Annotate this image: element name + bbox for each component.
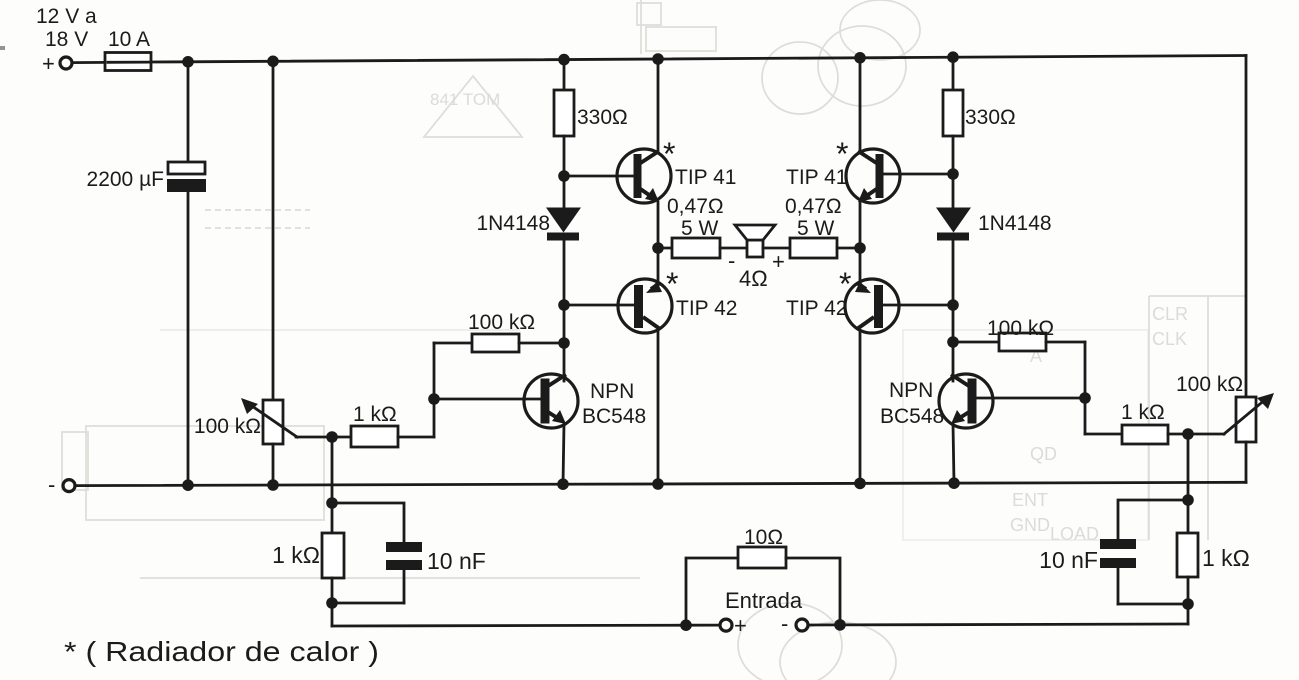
wire bottom input line left [332,624,686,628]
svg-text:5 W: 5 W [797,217,835,240]
svg-text:1 kΩ: 1 kΩ [1202,545,1250,571]
svg-text:-: - [781,611,788,636]
wire Q1 base [564,175,634,178]
wire input - to node E2 [808,624,840,627]
node O2 (right output) [854,242,866,254]
terminal input + [720,619,732,631]
svg-text:LOAD: LOAD [1050,524,1099,544]
wire ground bus [75,482,1246,485]
transistor Q6 NPN BC548 right [939,374,993,428]
svg-text:1 kΩ: 1 kΩ [353,403,397,426]
node top bus / Q3 collector [854,52,866,64]
wire R1n to C3 top [1118,500,1188,539]
capacitor C2 10 nF left [386,542,422,552]
wire A2 down [563,305,566,343]
wire Q4 collector to ground [859,331,862,483]
svg-text:330Ω: 330Ω [965,106,1016,129]
node L2 [326,597,338,609]
svg-text:NPN: NPN [590,380,634,403]
svg-text:TIP 42: TIP 42 [786,297,847,320]
svg-text:841 TOM: 841 TOM [430,90,500,109]
node W2 [1182,428,1194,440]
svg-text:*: * [663,136,675,172]
loudspeaker LS1 4 ohm [747,240,763,257]
potentiometer P2 100k body [1236,397,1256,442]
resistor R8 100k feedback right [953,341,999,344]
resistor R3 0,47 ohm left [658,247,672,250]
node bias A5 (Q4 base) [947,299,959,311]
wire node B1 up to R7 [433,343,436,399]
wire Q5 emitter to ground [563,424,564,484]
node A6 (R8 / Q6 collector) [947,336,959,348]
node B1 (Q5 base) [428,393,440,405]
wire O1 to Q2 emitter [657,248,660,283]
resistor R7 100k feedback left [434,342,472,345]
wire L1 to C2 top [332,503,404,542]
svg-text:+: + [42,51,55,76]
svg-text:10Ω: 10Ω [744,526,783,549]
svg-text:BC548: BC548 [582,405,646,428]
transistor Q4 TIP 42 right [845,279,899,333]
resistor R5 1k horizontal left [332,436,351,439]
node E1 [680,619,692,631]
wire Q1 collector to top bus [657,59,660,152]
svg-text:+: + [734,613,747,638]
resistor R6 1k horizontal right [1084,398,1087,434]
node R1n [1182,494,1194,506]
svg-text:100 kΩ: 100 kΩ [468,311,535,334]
wire Q4 base [880,304,953,307]
resistor R4 0,47 ohm right [763,247,790,250]
wire A5 down [952,305,955,342]
wire C2 bottom to L2 [332,602,404,605]
wire C1 top [187,62,190,162]
wire L2 down to input line [331,603,334,626]
resistor R9 1k vertical left [331,503,334,533]
svg-text:TIP 42: TIP 42 [676,297,737,320]
potentiometer P1 wiper arrow [249,404,297,437]
svg-text:TIP 41: TIP 41 [675,166,736,189]
wire Q3 emitter to node O2 [859,202,862,248]
wire top +V bus [188,56,1246,62]
transistor Q1 TIP 41 left [617,149,671,203]
terminal - (supply negative) [63,480,75,492]
node top bus / R1 330 [558,54,570,66]
diode D2 1N4148 [936,208,971,233]
svg-text:GND: GND [1010,515,1050,535]
terminal input - [796,619,808,631]
node gnd / Q5 emitter [557,478,569,490]
node bias A2 (Q2 base) [558,299,570,311]
wire P2 bottom lead [1245,442,1248,482]
diode D1 1N4148 [546,208,581,233]
wire W1 down across ground bus [331,437,334,503]
wire R2n down to input line [1187,604,1190,624]
wire Q6 base [974,397,1085,400]
svg-text:18 V: 18 V [45,28,88,51]
svg-text:-: - [728,248,735,273]
potentiometer P1 100k body [263,400,283,444]
svg-text:1N4148: 1N4148 [476,212,550,235]
wire A1 to diode D1 [563,176,566,210]
wire P1 wiper to node W1 [296,436,332,439]
node bias A4 (Q3 base) [947,168,959,180]
svg-text:Entrada: Entrada [725,588,803,613]
node L1 [326,497,338,509]
svg-text:5 W: 5 W [681,217,719,240]
wire right edge down to potentiometer P2 [1245,56,1248,398]
wire E1 to input + terminal [686,624,720,627]
capacitor C1 2200uF electrolytic [168,162,205,174]
wire Q1 emitter to output node O1 [657,202,660,248]
potentiometer P2 wiper arrow [1224,399,1266,434]
terminal + (supply positive) [60,57,72,69]
wire C1 bottom to ground bus [187,192,190,485]
svg-text:0,47Ω: 0,47Ω [785,195,842,218]
svg-text:1 kΩ: 1 kΩ [1121,401,1165,424]
node top bus / P1 [267,56,279,68]
svg-text:0,47Ω: 0,47Ω [667,195,724,218]
node B2 (Q6 base) [1079,392,1091,404]
node E2 [834,619,846,631]
svg-text:100 kΩ: 100 kΩ [194,415,261,438]
node W1 [326,431,338,443]
wire Q2 collector to ground [657,331,660,484]
node top bus / R2 330 [947,51,959,63]
node top bus / C1 [182,56,194,68]
svg-text:QD: QD [1030,444,1057,464]
wire bottom input line right [840,623,1188,627]
node A3 (R7 / Q5 collector) [558,337,570,349]
svg-text:10 nF: 10 nF [427,548,486,574]
svg-text:* ( Radiador de calor ): * ( Radiador de calor ) [64,636,379,667]
wire C3 bottom to R2n [1118,603,1188,606]
resistor R2 330 ohm right [952,57,955,90]
svg-text:10 A: 10 A [108,28,150,51]
node O1 (left output) [652,242,664,254]
svg-text:NPN: NPN [889,379,933,402]
node gnd / C1 [182,479,194,491]
svg-text:10 nF: 10 nF [1039,547,1098,573]
wire Q3 collector to top bus [859,58,862,152]
svg-text:2200 µF: 2200 µF [87,168,164,191]
svg-text:CLR: CLR [1152,304,1188,324]
node R2n [1182,598,1194,610]
svg-text:1N4148: 1N4148 [978,212,1052,235]
svg-text:ENT: ENT [1012,490,1048,510]
wire Q6 emitter to ground [953,424,954,483]
svg-text:100 kΩ: 100 kΩ [987,317,1054,340]
svg-text:330Ω: 330Ω [577,106,628,129]
node gnd / Q2 collector [652,478,664,490]
wire fuse to top bus [151,60,188,63]
capacitor C3 10 nF right [1100,539,1136,549]
wire P1 top lead [272,61,275,400]
transistor Q2 TIP 42 left [618,279,672,333]
wire W2 to P2 wiper [1188,433,1224,436]
svg-text:+: + [772,249,785,274]
wire Q3 base [883,173,953,176]
svg-text:100 kΩ: 100 kΩ [1176,373,1243,396]
svg-text:1 kΩ: 1 kΩ [272,542,320,568]
svg-text:TIP 41: TIP 41 [786,166,847,189]
resistor R10 10 ohm input bridge [686,558,738,625]
svg-text:-: - [48,472,55,497]
wire Q5 base [434,398,541,401]
svg-text:CLK: CLK [1152,329,1187,349]
node gnd / Q4 collector [854,478,866,490]
node top bus / Q1 collector [652,53,664,65]
svg-text:12 V a: 12 V a [36,5,97,28]
resistor R1 330 ohm left [563,60,566,90]
transistor Q5 NPN BC548 left [524,374,578,428]
wire A4 to diode D2 [952,174,955,210]
svg-text:4Ω: 4Ω [739,266,768,291]
resistor R11 1k vertical right [1187,500,1190,533]
wire Q2 base [564,304,637,307]
node gnd / P1 [267,479,279,491]
wire W2 down across ground bus [1187,434,1190,500]
svg-text:BC548: BC548 [880,405,944,428]
node bias A1 (Q1 base) [558,170,570,182]
wire O2 to Q4 emitter [859,248,862,283]
transistor Q3 TIP 41 right [846,149,900,203]
node gnd / Q6 emitter [948,477,960,489]
fuse F1 10 A [105,53,151,71]
wire terminal to fuse [72,61,106,64]
wire P1 bottom lead [272,444,275,485]
